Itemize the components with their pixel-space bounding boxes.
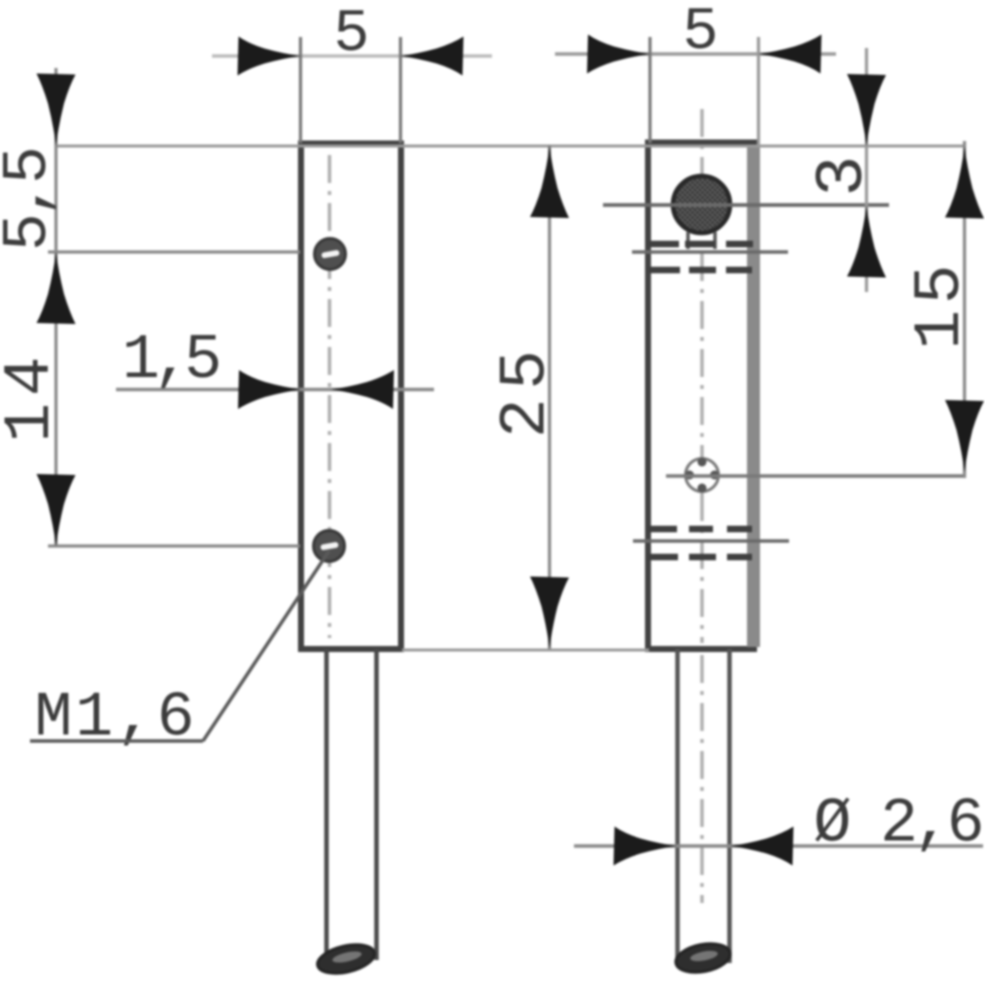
left view upper screw hole bbox=[315, 239, 346, 270]
wire small circle line y=476 bbox=[666, 474, 964, 478]
left view lower screw hole bbox=[314, 531, 345, 562]
left view cylinder bbox=[315, 649, 377, 978]
wire bottom extension line y=650 bbox=[402, 649, 649, 652]
left view body bbox=[301, 144, 401, 650]
wire upper-hole extension line y=252 bbox=[48, 250, 300, 253]
dimension 25 vertical line bbox=[530, 145, 569, 649]
svg-text:5: 5 bbox=[333, 1, 369, 69]
svg-text:1,5: 1,5 bbox=[122, 325, 222, 396]
label M1,6 with leader bbox=[30, 551, 329, 754]
dimension 5,5 and 14 vertical line bbox=[37, 68, 76, 546]
right view body bbox=[648, 143, 754, 650]
dimension 5 right view: line bbox=[555, 35, 836, 147]
right view sensing coil circle bbox=[673, 176, 730, 233]
svg-text:Ø 2,6: Ø 2,6 bbox=[814, 789, 985, 860]
svg-text:5: 5 bbox=[682, 0, 718, 67]
right view coil neck bbox=[688, 232, 715, 249]
wire circle center line y=205 bbox=[603, 203, 889, 207]
svg-text:3: 3 bbox=[805, 156, 882, 197]
right view lower hidden dash row C bbox=[647, 526, 752, 533]
dimension 1,5: line bbox=[116, 370, 434, 409]
wire lower-hole extension line y=546 bbox=[48, 544, 300, 547]
dimension 15 vertical line bbox=[945, 141, 984, 478]
dimension diameter 2,6: line bbox=[574, 827, 983, 866]
right view upper hidden dash row B bbox=[648, 267, 752, 274]
dimension 5 left view: line bbox=[212, 37, 492, 144]
svg-text:5,5: 5,5 bbox=[0, 146, 64, 251]
right view lower face line bbox=[633, 539, 789, 542]
right view cylinder centerline bbox=[700, 655, 704, 903]
right view lower hidden dash row D bbox=[647, 554, 752, 561]
dimension 3 vertical line bbox=[847, 48, 886, 292]
right view centerline bbox=[700, 109, 704, 643]
right view upper face line bbox=[632, 250, 788, 253]
right view upper hidden dash row A bbox=[648, 241, 753, 248]
right view cylinder bbox=[673, 649, 732, 976]
right view small screw circle bbox=[685, 458, 719, 493]
wire top extension line y=146 bbox=[56, 145, 965, 148]
left view centerline bbox=[328, 155, 332, 638]
